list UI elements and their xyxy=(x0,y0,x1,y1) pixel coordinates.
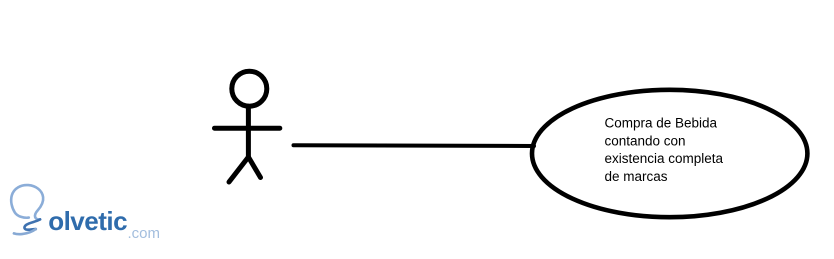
svg-text:.com: .com xyxy=(128,225,161,242)
svg-text:olvetic: olvetic xyxy=(48,206,127,236)
svg-text:contando con: contando con xyxy=(605,133,686,148)
svg-text:Compra de Bebida: Compra de Bebida xyxy=(605,115,718,130)
svg-text:existencia completa: existencia completa xyxy=(605,151,724,166)
svg-text:de marcas: de marcas xyxy=(605,169,668,184)
